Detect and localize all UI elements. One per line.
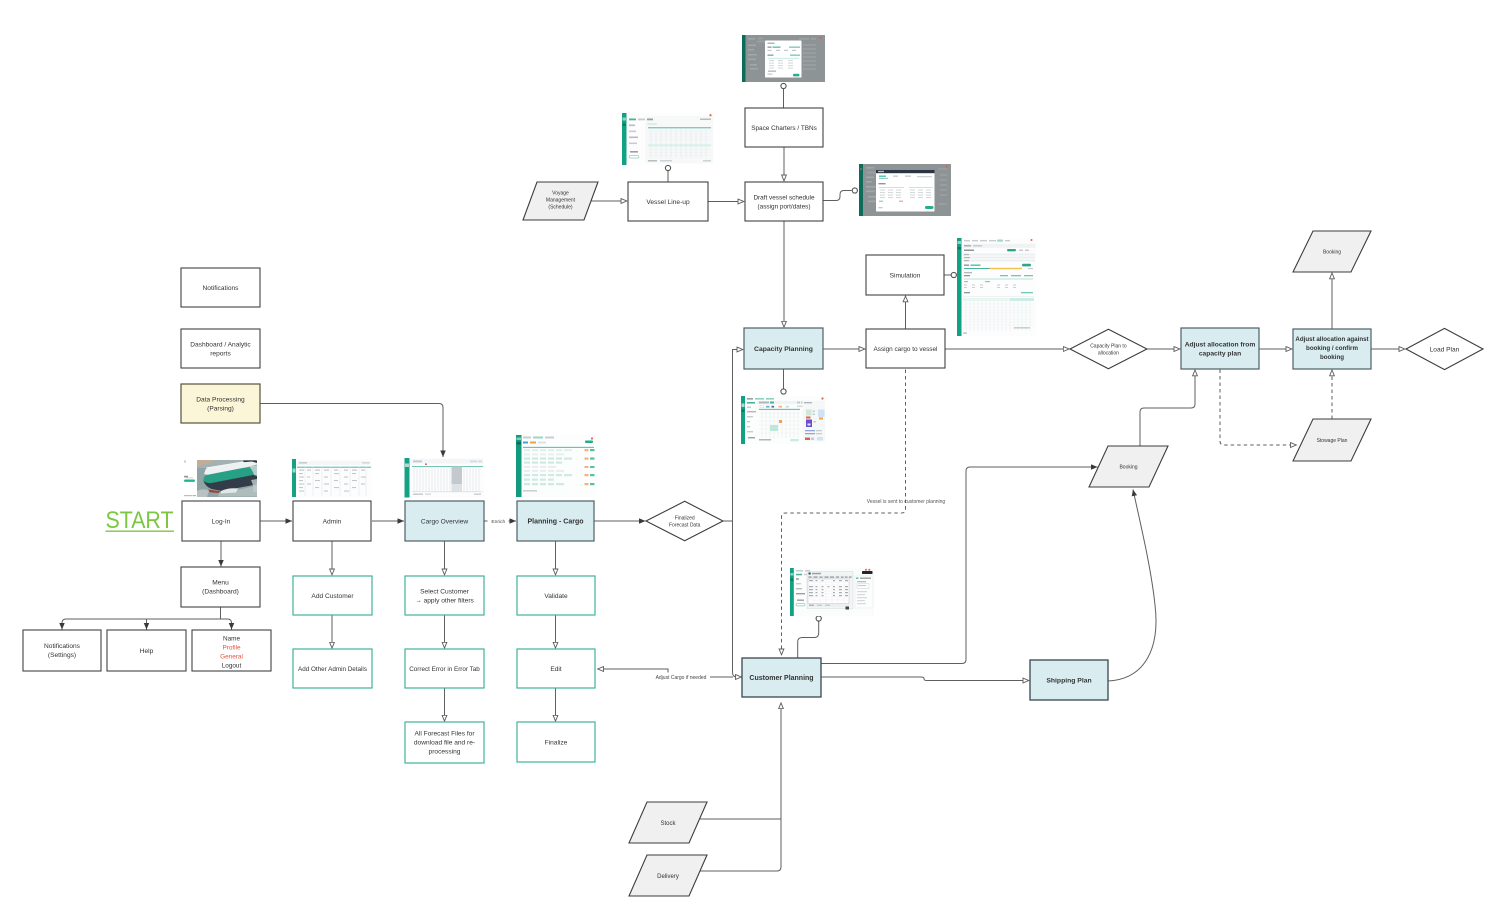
box Data Processing (Parsing) [181,384,260,423]
box Select Customer apply other filters [405,576,484,615]
box Assign cargo to vessel [866,329,945,368]
wire Capacity Planning to Assign cargo to vessel [824,348,866,350]
wire dashed Assign cargo to Customer Planning [782,370,906,656]
wire Customer Planning to Booking mid [822,467,1098,664]
wire arrow into Help [146,622,148,630]
wire Customer Planning to Shipping Plan [822,677,1030,681]
wire Delivery up to Customer Planning [699,703,781,871]
screenshot Log-In app with ship photo [182,457,260,497]
svg-text:(Parsing): (Parsing) [207,406,234,413]
screenshot Draft vessel schedule dark app with modal [859,164,951,216]
svg-text:Adjust allocation against: Adjust allocation against [1295,336,1368,343]
svg-text:Stowage Plan: Stowage Plan [1317,438,1348,444]
svg-text:booking / confirm: booking / confirm [1306,345,1358,352]
node connector circle below Customer Planning screenshot [816,616,821,621]
svg-text:download file and re-: download file and re- [414,740,475,747]
svg-text:(assign port/dates): (assign port/dates) [758,204,811,211]
wire Edit to Finalize [555,689,557,722]
svg-text:booking: booking [1320,354,1344,361]
svg-text:Draft vessel schedule: Draft vessel schedule [753,195,815,202]
wire Finalized Forecast Data to junction [723,520,733,522]
node connector circle below Capacity Planning [781,389,786,394]
svg-text:Logout: Logout [222,663,242,670]
svg-text:Capacity Planning: Capacity Planning [754,346,813,353]
svg-text:Adjust Cargo if needed: Adjust Cargo if needed [656,675,707,681]
svg-text:Menu: Menu [212,580,229,587]
diamond Finalized Forecast Data [646,501,723,540]
wire Draft vessel schedule down to Capacity Planning [783,222,785,328]
svg-text:Dashboard / Analytic: Dashboard / Analytic [190,342,251,349]
wire arrow into Name box [231,622,233,630]
label Vessel is sent to customer planning [867,499,946,505]
wire arrow into Notifications (Settings) [61,622,63,630]
wire Admin down to Add Customer [331,541,333,575]
parallelogram Stock [629,802,707,843]
svg-text:Stock: Stock [660,821,676,827]
node connector circle above Space Charters [781,83,786,88]
svg-text:Edit: Edit [550,666,562,673]
screenshot Simulation tall app [957,238,1036,336]
box Admin [293,501,371,541]
svg-text:→ apply other filters: → apply other filters [415,598,474,605]
wire Adjust allocation against to Load Plan [1372,348,1406,350]
wire Enrich label to Planning - Cargo [508,520,516,522]
box Validate [517,576,595,615]
node connector circle right of Simulation [951,272,956,277]
wire Cargo Overview down to Select Customer [444,541,446,575]
svg-text:Shipping Plan: Shipping Plan [1046,677,1091,684]
svg-text:Delivery: Delivery [657,874,679,880]
wire Cargo Overview to Enrich label [484,520,489,522]
svg-text:Assign cargo to vessel: Assign cargo to vessel [874,346,938,353]
wire dashed Adjust allocation from down to Stowage Plan [1220,370,1297,446]
svg-text:General: General [220,654,243,661]
wire Vessel Line-up to Draft vessel schedule [708,201,744,203]
box All Forecast Files [405,722,484,763]
svg-text:Select Customer: Select Customer [420,589,470,596]
diamond Load Plan [1406,328,1483,369]
svg-text:Add Other Admin Details: Add Other Admin Details [298,666,367,673]
wire Adjust allocation against up to Booking top [1331,273,1333,329]
label START [106,507,175,534]
wire dashed Stowage Plan up to Adjust allocation against [1331,370,1333,419]
svg-text:Data Processing: Data Processing [196,397,245,404]
svg-text:Voyage: Voyage [552,191,569,197]
svg-text:Vessel Line-up: Vessel Line-up [646,199,690,206]
svg-text:Simulation: Simulation [890,272,921,279]
wire junction up to Capacity Planning [733,350,744,522]
wire Menu down branch [220,607,222,619]
svg-text:Log-In: Log-In [212,518,231,525]
svg-text:Validate: Validate [544,593,568,600]
svg-text:Notifications: Notifications [44,643,81,650]
svg-text:Customer Planning: Customer Planning [749,675,813,682]
diamond Capacity Plan to allocation [1070,329,1147,368]
svg-text:Management: Management [546,198,576,204]
wire Customer Planning screenshot circle to box [798,621,819,658]
svg-text:reports: reports [210,351,231,358]
box Adjust allocation against booking / confirm booking [1293,329,1371,369]
wire Shipping Plan curve to Booking mid [1108,490,1156,682]
box Customer Planning [742,658,821,697]
svg-text:Booking: Booking [1119,465,1137,471]
wire Admin to Cargo Overview [372,520,404,522]
svg-text:Add Customer: Add Customer [311,593,354,600]
box Add Other Admin Details [293,649,372,688]
wire Booking mid up to Adjust allocation from [1140,370,1195,446]
box Cargo Overview [405,501,484,541]
wire Draft vessel schedule to right screenshot circle [823,191,852,201]
svg-text:START: START [106,507,174,534]
svg-text:Finalize: Finalize [545,739,568,746]
label Enrich [488,517,509,526]
box Name Profile General Logout [192,630,271,671]
box Planning - Cargo [517,501,594,541]
wire junction down to Customer Planning [733,521,742,677]
wire Voyage Management to Vessel Line-up [591,200,627,202]
svg-text:(Settings): (Settings) [48,652,76,659]
wire Stock to junction [697,818,781,820]
screenshot Cargo Overview table app [404,458,484,498]
screenshot Capacity Planning app [741,396,825,444]
wire Capacity Planning down to screenshot circle [783,370,785,389]
screenshot Admin table app [292,459,372,497]
box Simulation [866,255,944,295]
svg-text:Help: Help [140,648,154,655]
svg-text:Notifications: Notifications [203,285,240,292]
box Log-In [182,501,260,541]
svg-text:Name: Name [223,636,240,643]
svg-text:capacity plan: capacity plan [1199,351,1241,358]
svg-text:Adjust allocation from: Adjust allocation from [1185,342,1256,349]
wire Simulation to connector circle [945,274,952,276]
box Notifications (Settings) [23,630,101,671]
wire Assign cargo up to Simulation [905,296,907,329]
svg-text:(Schedule): (Schedule) [548,205,573,211]
parallelogram Stowage Plan [1293,419,1371,461]
box Add Customer [293,576,372,615]
svg-text:Finalized: Finalized [675,516,695,522]
svg-text:Load Plan: Load Plan [1430,347,1460,354]
svg-text:Capacity Plan to: Capacity Plan to [1090,344,1127,350]
wire Planning - Cargo down to Validate [555,541,557,575]
wire Adjust allocation from to Adjust allocation against [1260,348,1293,350]
parallelogram Booking middle [1089,446,1168,487]
wire Assign cargo to Capacity Plan to allocation [946,348,1070,350]
svg-text:Planning - Cargo: Planning - Cargo [528,519,584,526]
wire Log-In down to Menu [220,541,222,567]
box Dashboard / Analytic reports [181,329,260,368]
svg-text:Forecast Data: Forecast Data [669,523,701,529]
wire Space Charters down to Draft vessel schedule [783,148,785,182]
box Vessel Line-up [628,182,708,221]
svg-text:All Forecast Files for: All Forecast Files for [414,731,475,738]
box Draft vessel schedule (assign port/dates) [745,182,823,221]
screenshot Space Charters dark app with modal [742,35,825,82]
svg-text:(Dashboard): (Dashboard) [202,589,239,596]
wire Select Customer to Correct Error [444,616,446,649]
box Help [107,630,186,671]
box Menu (Dashboard) [181,567,260,607]
parallelogram Booking top right [1293,231,1371,272]
box Correct Error in Error Tab [405,649,484,688]
svg-text:Booking: Booking [1323,250,1341,256]
svg-text:Correct Error in Error Tab: Correct Error in Error Tab [409,666,480,673]
wire Correct Error to All Forecast Files [444,689,446,722]
box Shipping Plan [1030,660,1108,700]
box Finalize [517,722,595,762]
screenshot Customer Planning spreadsheet app [790,568,874,616]
wire connector circle to Space Charters [783,89,785,109]
svg-text:Cargo Overview: Cargo Overview [421,518,469,525]
label Adjust Cargo if needed [652,673,710,682]
svg-text:Enrich: Enrich [491,519,505,525]
parallelogram Voyage Management (Schedule) [523,182,598,220]
parallelogram Delivery [629,855,707,896]
wire Capacity Plan to allocation to Adjust allocation from capacity plan [1147,348,1180,350]
svg-text:Vessel is sent to customer pla: Vessel is sent to customer planning [867,499,946,505]
box Adjust allocation from capacity plan [1181,328,1259,369]
box Edit [517,649,595,688]
wire Add Customer to Add Other Admin Details [331,616,333,649]
svg-text:Profile: Profile [222,645,241,652]
box Space Charters / TBNs [745,108,823,147]
wire Data Processing to Cargo Overview screenshot [260,404,443,458]
wire Log-In to Admin [260,520,292,522]
wire Planning - Cargo to Finalized Forecast Data [595,520,646,522]
screenshot Planning - Cargo tall app [516,435,596,497]
wire Customer Planning to Edit (Adjust Cargo if needed) [598,669,734,677]
svg-text:allocation: allocation [1098,351,1119,357]
screenshot Vessel Line-up table app [622,113,714,165]
svg-text:processing: processing [429,749,461,756]
node connector circle above Vessel Line-up [665,165,670,170]
box Capacity Planning [744,328,823,369]
wire Validate to Edit [555,616,557,649]
node connector circle right of Draft vessel schedule [852,188,857,193]
svg-text:Admin: Admin [323,518,342,525]
box Notifications [181,268,260,307]
wire connector circle to Vessel Line-up [667,171,669,182]
svg-text:Space Charters / TBNs: Space Charters / TBNs [751,125,817,132]
